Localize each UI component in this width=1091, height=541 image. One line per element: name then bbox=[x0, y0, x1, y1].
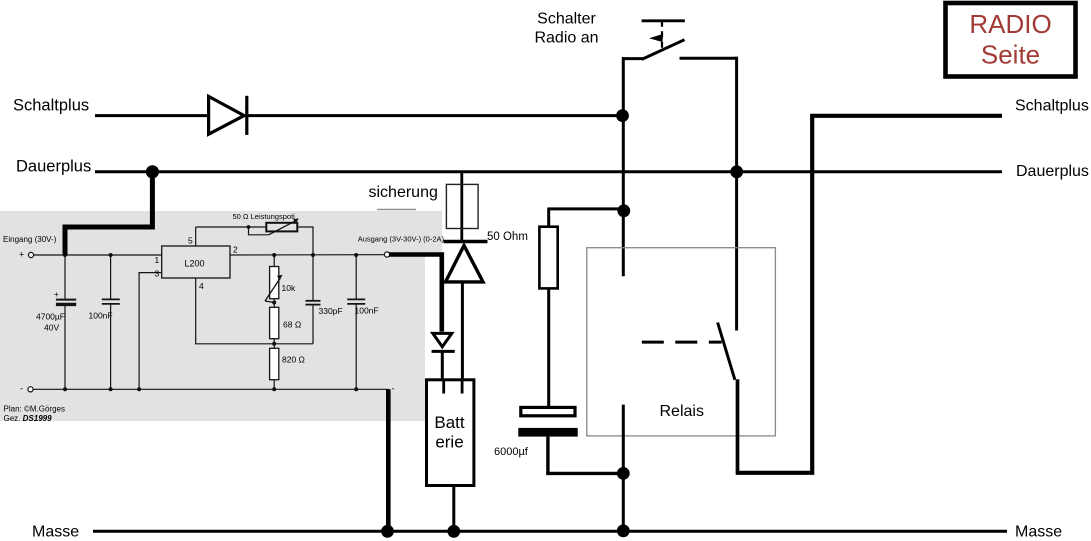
wire 330pF lower lead bbox=[312, 305, 314, 343]
switch actuator dashed link bbox=[661, 21, 663, 50]
capacitor C4 100nF output plates bbox=[347, 299, 378, 315]
wire 100nF output cap leads bbox=[355, 255, 357, 299]
svg-text:5: 5 bbox=[188, 236, 193, 246]
svg-text:-: - bbox=[392, 384, 395, 394]
node Masse coil junction bbox=[617, 524, 630, 537]
wire pin4 to divider line bbox=[196, 278, 313, 344]
wire 50 Ohm to capacitor bbox=[547, 288, 550, 406]
svg-text:40V: 40V bbox=[44, 323, 59, 333]
svg-text:68 Ω: 68 Ω bbox=[283, 320, 301, 330]
node Masse module junction bbox=[381, 525, 394, 538]
capacitor C3 330pF plates bbox=[306, 301, 343, 316]
svg-text:Dauerplus: Dauerplus bbox=[16, 158, 91, 176]
svg-text:1: 1 bbox=[155, 255, 160, 265]
wire input rail bbox=[34, 254, 162, 256]
svg-text:Schaltplus: Schaltplus bbox=[13, 97, 89, 115]
svg-text:Radio an: Radio an bbox=[534, 30, 598, 47]
wire relay output to Schaltplus right bbox=[736, 116, 1002, 473]
module terminal labels bbox=[3, 235, 444, 424]
capacitor C5 6000uf bbox=[494, 407, 578, 458]
switch left contact bbox=[622, 57, 643, 60]
svg-text:Seite: Seite bbox=[981, 40, 1040, 70]
wire output rail bbox=[230, 254, 384, 256]
wire diode D3 to battery bbox=[441, 351, 444, 380]
fuse F1 sicherung bbox=[446, 172, 478, 242]
wire pin3 to ground bbox=[139, 273, 162, 390]
wire Schaltplus to switch bbox=[248, 114, 623, 117]
svg-text:-: - bbox=[20, 384, 23, 394]
node Ausgang terminal bbox=[384, 252, 389, 257]
node coil top junction bbox=[617, 204, 630, 217]
svg-text:Schaltplus: Schaltplus bbox=[1015, 98, 1089, 115]
relay K1 box bbox=[587, 248, 776, 436]
switch right contact bbox=[680, 57, 738, 60]
resistor R3 50 Ohm bbox=[487, 227, 558, 289]
wire 330pF upper lead bbox=[312, 255, 314, 300]
switch actuator arrow bbox=[649, 34, 663, 42]
svg-text:L200: L200 bbox=[185, 258, 205, 268]
wire switch right vertical to relay contact bbox=[735, 57, 738, 331]
resistor R1 68 Ohm bbox=[270, 307, 302, 338]
wire 820 bottom lead bbox=[273, 380, 275, 390]
node - input terminal bottom bbox=[28, 387, 33, 392]
capacitor C1 4700uF leads bbox=[64, 255, 66, 299]
svg-text:+: + bbox=[54, 290, 59, 299]
node coil bottom junction bbox=[617, 467, 630, 480]
battery B1 bbox=[427, 380, 474, 486]
node Masse battery junction bbox=[447, 525, 460, 538]
switch top bar bbox=[642, 19, 685, 22]
svg-text:erie: erie bbox=[435, 433, 463, 452]
switch lever bbox=[642, 40, 685, 60]
wire Masse main bbox=[93, 530, 1007, 533]
wire capacitor to coil junction bbox=[546, 472, 623, 475]
wire capacitor bottom lead bbox=[546, 437, 549, 474]
svg-text:Dauerplus: Dauerplus bbox=[1016, 163, 1089, 180]
capacitor C2 100nF leads bbox=[110, 255, 112, 299]
svg-text:330pF: 330pF bbox=[319, 306, 343, 316]
wire Schaltplus left segment bbox=[95, 114, 209, 117]
wire 68 to 820 link bbox=[273, 339, 275, 349]
capacitor C1 4700uF plates bbox=[36, 290, 76, 333]
svg-text:+: + bbox=[19, 250, 24, 260]
wire pin5 riser bbox=[195, 227, 197, 246]
switch S1 Schalter Radio an bbox=[622, 21, 738, 60]
potentiometer P1 50 Ohm Leistungspoti bbox=[233, 212, 299, 235]
potentiometer P2 10k bbox=[265, 267, 296, 303]
svg-text:6000µf: 6000µf bbox=[494, 446, 529, 458]
svg-text:100nF: 100nF bbox=[355, 306, 379, 316]
relay actuator dashed link bbox=[642, 341, 722, 344]
svg-text:3: 3 bbox=[155, 269, 160, 279]
resistor R2 820 Ohm bbox=[270, 348, 305, 379]
wire 50 Ohm branch top bbox=[549, 207, 624, 210]
svg-text:Eingang (30V-): Eingang (30V-) bbox=[3, 235, 57, 244]
regulator module grey background bbox=[0, 211, 442, 421]
wire resistor chain top lead bbox=[273, 255, 275, 267]
svg-text:RADIO: RADIO bbox=[969, 9, 1051, 39]
wire relay coil bottom bbox=[622, 405, 625, 531]
svg-text:10k: 10k bbox=[282, 283, 296, 293]
svg-text:50 Ohm: 50 Ohm bbox=[487, 231, 528, 243]
node Dauerplus module junction bbox=[146, 165, 159, 178]
diode D2 below fuse bbox=[444, 242, 488, 282]
svg-text:820 Ω: 820 Ω bbox=[282, 355, 305, 365]
wire battery to Masse bbox=[452, 486, 455, 532]
wire relay contact lower bbox=[736, 379, 740, 472]
op-amp U1 L200 regulator box bbox=[155, 236, 239, 292]
module junction dots bbox=[63, 253, 358, 391]
node + input terminal bbox=[28, 252, 33, 257]
svg-text:4: 4 bbox=[199, 281, 204, 291]
RADIO Seite box bbox=[946, 3, 1076, 77]
svg-text:Ausgang (3V-30V-) (0-2A): Ausgang (3V-30V-) (0-2A) bbox=[358, 235, 445, 244]
diode D3 charge path bbox=[432, 333, 455, 351]
svg-text:sicherung: sicherung bbox=[369, 184, 438, 201]
wire bottom rail bbox=[33, 388, 388, 390]
wire diode D2 to battery bbox=[461, 282, 464, 381]
label sicherung bbox=[369, 184, 438, 210]
svg-text:2: 2 bbox=[233, 245, 238, 255]
wire thick module minus to Masse bbox=[386, 389, 391, 531]
wire 10k to 68 link bbox=[273, 299, 275, 308]
node Schaltplus switch junction bbox=[616, 109, 629, 122]
svg-text:100nF: 100nF bbox=[89, 311, 113, 321]
svg-text:Plan: ©M.Görges: Plan: ©M.Görges bbox=[4, 405, 65, 414]
wire thick Ausgang feed bbox=[389, 255, 442, 332]
wire switch left vertical to relay coil bbox=[622, 57, 625, 276]
wire Dauerplus main bbox=[95, 170, 1002, 173]
svg-text:Masse: Masse bbox=[1015, 524, 1062, 541]
svg-text:Masse: Masse bbox=[32, 524, 79, 541]
junction dots main bbox=[146, 109, 743, 537]
capacitor C2 100nF plates bbox=[89, 299, 120, 320]
wire poti right to pin2 vertical bbox=[297, 227, 313, 255]
svg-text:Gez. DS1999: Gez. DS1999 bbox=[4, 414, 53, 423]
relay switch lever bbox=[718, 323, 735, 380]
wire thick Dauerplus feed to module bbox=[65, 172, 152, 255]
svg-text:Relais: Relais bbox=[660, 403, 704, 420]
wire poti wiper tie bbox=[249, 227, 269, 235]
diode D1 on Schaltplus bbox=[209, 96, 247, 135]
node Dauerplus switch junction bbox=[730, 165, 743, 178]
GREY MODULE INTERNALS bbox=[28, 227, 390, 392]
svg-text:4700µF: 4700µF bbox=[36, 312, 65, 322]
label Schalter Radio an bbox=[534, 11, 598, 47]
svg-text:50 Ω Leistungspoti: 50 Ω Leistungspoti bbox=[233, 212, 296, 221]
svg-text:Schalter: Schalter bbox=[537, 11, 596, 28]
wire poti top line bbox=[196, 226, 267, 228]
svg-text:Batt: Batt bbox=[434, 413, 465, 432]
